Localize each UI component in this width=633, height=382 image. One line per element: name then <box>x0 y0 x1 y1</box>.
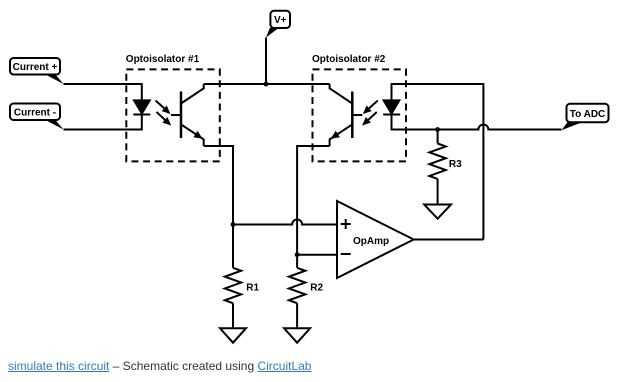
wire R1 bottom lead to ground <box>232 303 234 328</box>
svg-text:Optoisolator #2: Optoisolator #2 <box>312 54 386 65</box>
diode D2 (opto2 LED) <box>383 100 400 114</box>
flag label V+ <box>266 11 290 38</box>
optoisolator U1 dashed box <box>126 69 220 161</box>
svg-text:R3: R3 <box>449 159 462 170</box>
wire V+ drop <box>265 38 267 85</box>
flag label To ADC <box>562 104 609 130</box>
svg-text:R1: R1 <box>246 283 259 294</box>
svg-text:Current +: Current + <box>13 62 58 73</box>
svg-text:Optoisolator #1: Optoisolator #1 <box>126 54 200 65</box>
wire R3 bottom lead to ground <box>437 179 439 205</box>
wire feedback: LED2 anode to output <box>392 84 484 240</box>
light arrow opto2 a <box>363 101 378 115</box>
ground (R1) <box>220 328 246 342</box>
svg-text:V+: V+ <box>274 15 287 26</box>
node R3/ADC junction <box>435 127 440 132</box>
resistor R2 <box>289 268 305 303</box>
ground (R2) <box>284 328 310 342</box>
node R1/+input junction <box>231 222 236 227</box>
wire non-inverting input (with hop over R2 wire) <box>233 220 337 225</box>
light arrow opto1 b <box>157 112 172 126</box>
svg-text:R2: R2 <box>310 283 323 294</box>
svg-text:OpAmp: OpAmp <box>353 236 389 247</box>
ground (R3) <box>424 205 451 219</box>
flag label Current + <box>10 58 64 84</box>
wire opto2 emitter to R2 top <box>297 146 330 268</box>
wire R3 top lead <box>437 130 439 144</box>
svg-text:To ADC: To ADC <box>570 109 606 120</box>
resistor R3 <box>429 144 445 179</box>
op-amp U3 <box>337 201 414 278</box>
light arrow opto1 a <box>156 101 171 115</box>
wire opto1 emitter to R1 top <box>204 146 233 268</box>
wire op-amp output <box>414 239 484 241</box>
flag label Current - <box>10 104 64 130</box>
svg-text:Current -: Current - <box>14 108 56 119</box>
wire LED2 cathode to ADC (with hop over feedback wire) <box>392 115 562 130</box>
wire top rail (collector1 to collector2 via V+ node) <box>204 83 330 85</box>
transistor Q1 (opto1 phototransistor) <box>171 84 204 146</box>
light arrow opto2 b <box>362 112 377 126</box>
wire Current+ to LED1 anode <box>64 84 142 100</box>
optoisolator U2 dashed box <box>313 69 407 161</box>
node R2/-input junction <box>295 252 300 257</box>
diode D1 (opto1 LED) <box>133 100 150 114</box>
resistor R1 <box>225 268 241 303</box>
wire inverting input <box>297 254 337 256</box>
node V+ junction <box>264 82 269 87</box>
caption <box>8 359 311 373</box>
wire Current- to LED1 cathode <box>64 115 142 130</box>
wire R2 bottom lead to ground <box>296 303 298 328</box>
transistor Q2 (opto2 phototransistor) <box>330 84 363 146</box>
